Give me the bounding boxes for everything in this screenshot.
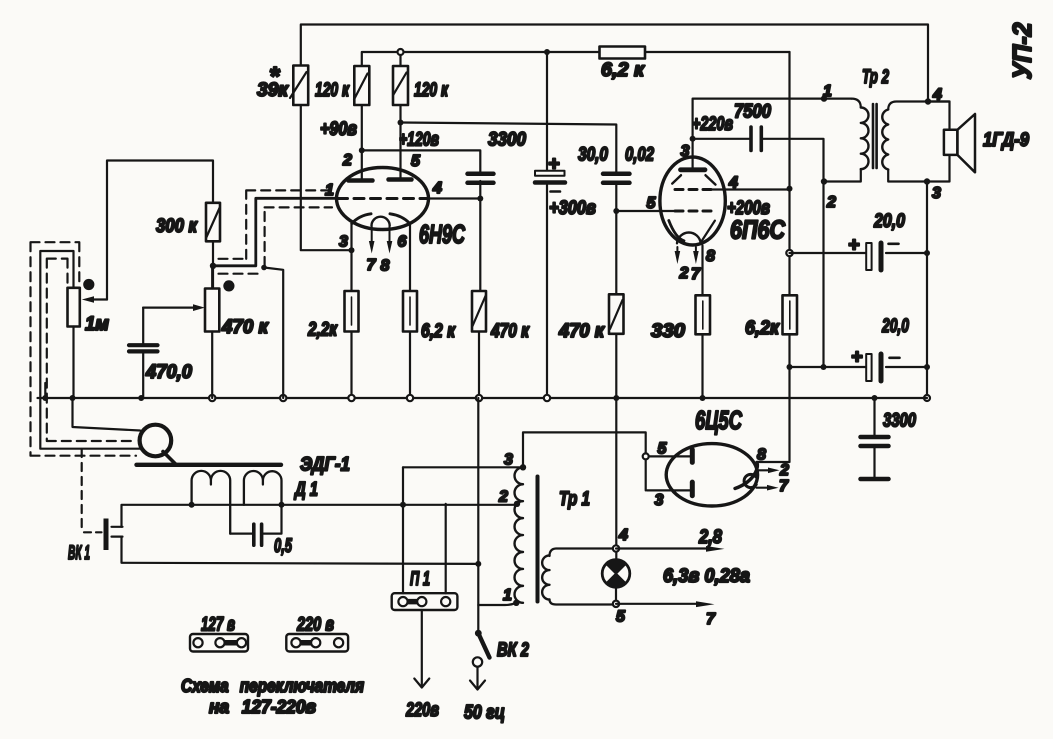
svg-text:П 1: П 1 xyxy=(410,568,430,590)
resistor 470k (slashed, grid leak) xyxy=(472,291,530,342)
svg-text:220в: 220в xyxy=(405,699,439,721)
wire: Tr1 terminal 3 to P1 left xyxy=(403,466,523,468)
capacitor 470,0 xyxy=(129,308,192,398)
svg-text:+220в: +220в xyxy=(692,113,733,135)
transformer Tr1 power xyxy=(498,452,616,607)
resistor 330 xyxy=(651,295,710,342)
svg-text:2: 2 xyxy=(498,489,508,506)
svg-text:5: 5 xyxy=(411,153,421,170)
svg-text:20,0: 20,0 xyxy=(881,315,909,337)
wire: mains wire VK1 to Tr1 terminal 2 xyxy=(122,504,518,527)
node: ring filament 5 xyxy=(613,601,619,607)
capacitor 3300 (output) xyxy=(861,398,917,479)
svg-text:3300: 3300 xyxy=(883,410,916,432)
svg-text:2: 2 xyxy=(679,265,689,282)
svg-text:2: 2 xyxy=(826,194,836,211)
node: dots on right vertical x=927 xyxy=(924,250,930,256)
wire: VK1 to VK2 mains wire xyxy=(122,537,479,564)
svg-text:30,0: 30,0 xyxy=(578,144,608,166)
svg-text:6Н9С: 6Н9С xyxy=(419,219,466,249)
svg-text:+300в: +300в xyxy=(549,197,596,219)
node: ring filament 4 xyxy=(613,545,619,551)
svg-text:470 к: 470 к xyxy=(490,320,530,342)
wire: pin6 column / 6,2k xyxy=(409,224,411,398)
node: Tr2 terminal 3 dot xyxy=(924,178,930,184)
svg-text:4: 4 xyxy=(728,175,738,192)
resistor 2,2k xyxy=(307,291,358,341)
svg-text:2,8: 2,8 xyxy=(698,526,722,548)
svg-text:5: 5 xyxy=(616,609,626,626)
svg-text:на 127-220в: на 127-220в xyxy=(209,697,316,717)
wire: right vertical +300 raw / screen chain xyxy=(757,52,790,462)
wire: 220v mains arrow xyxy=(405,610,439,721)
shield chassis blob left xyxy=(83,279,94,290)
svg-text:4: 4 xyxy=(432,180,442,197)
wire: 120k#2 top stub xyxy=(399,52,401,66)
switch VK2 mains xyxy=(464,398,529,724)
svg-text:470 к: 470 к xyxy=(558,320,605,342)
motor EDG-1 D1 xyxy=(137,454,351,534)
svg-text:0,5: 0,5 xyxy=(274,535,293,557)
svg-text:6: 6 xyxy=(398,234,407,251)
node: pin2 plate node xyxy=(359,147,365,153)
jumper block 220v xyxy=(286,614,348,652)
wire: pin2 node to 3300 cap xyxy=(362,150,481,172)
node: ring 20,0 no.1 tap xyxy=(786,250,792,256)
capacitor 0,02 coupling xyxy=(603,144,654,183)
wire: ground to pickup xyxy=(73,398,141,431)
svg-text:3300: 3300 xyxy=(488,129,526,151)
jumper block 127v xyxy=(190,614,248,652)
svg-text:120 к: 120 к xyxy=(414,79,449,101)
shield chassis blob right xyxy=(223,280,234,291)
wire: filament lead 7 arrow xyxy=(616,601,716,628)
shield dashed box around 1m input xyxy=(31,242,137,456)
wire: 470k (slashed) bottom and VK2 line xyxy=(478,332,480,399)
wire: 470k grid resistor bottom through bus to lamp xyxy=(615,334,617,560)
resistor 39k* (adjustable) xyxy=(257,61,308,105)
wire: 39k bottom to pin 3 node xyxy=(301,105,352,250)
node: dot P1 riser crossing motor wire xyxy=(400,502,406,508)
svg-text:Д 1: Д 1 xyxy=(293,479,318,501)
svg-text:Схема переключателя: Схема переключателя xyxy=(181,676,364,696)
svg-text:+: + xyxy=(851,346,862,368)
svg-text:5: 5 xyxy=(647,195,657,212)
svg-text:6Ц5С: 6Ц5С xyxy=(695,405,743,435)
capacitor 0,5 motor xyxy=(230,505,293,557)
resistor 6,2k horizontal (B+ dropper) xyxy=(600,47,646,82)
svg-text:4: 4 xyxy=(932,87,942,104)
tube 6P6S output pentode xyxy=(647,143,787,283)
wire: 1m top to shielded line down to pickup xyxy=(40,251,140,449)
svg-text:7500: 7500 xyxy=(734,101,771,123)
tube 6N9S double triode xyxy=(325,152,466,275)
wire: grid node to 6P6S pin 5 xyxy=(616,210,676,212)
node: shield drain dot xyxy=(261,265,267,271)
node: ground bus junction dots xyxy=(42,395,48,401)
svg-text:+: + xyxy=(848,234,859,256)
svg-text:5: 5 xyxy=(658,441,668,458)
node: grid junction 6P6S xyxy=(613,208,619,214)
svg-text:ЭДГ-1: ЭДГ-1 xyxy=(300,454,350,476)
resistor 6,2k (cathode right) xyxy=(403,291,456,342)
svg-text:+90в: +90в xyxy=(320,118,357,140)
svg-text:6,2к: 6,2к xyxy=(745,317,780,339)
pickup head xyxy=(140,425,177,465)
svg-text:3: 3 xyxy=(339,234,348,251)
wire: 300k top link from 1m wiper xyxy=(107,161,213,300)
svg-text:ВК 2: ВК 2 xyxy=(497,639,529,661)
lamp indicator xyxy=(602,560,630,588)
wire: +120v node to 0,02 cap xyxy=(401,123,617,173)
svg-text:ВК 1: ВК 1 xyxy=(68,542,90,564)
shield dashes around grid-1 wire xyxy=(219,190,333,273)
wire: P1 left contact riser xyxy=(402,467,404,593)
node: screen node on right vertical xyxy=(787,186,793,192)
wire: speaker top connection xyxy=(928,102,950,131)
wire: filament lead 2,8 arrow xyxy=(616,526,725,552)
wire: ground bus xyxy=(38,397,928,399)
svg-text:3: 3 xyxy=(932,185,941,202)
switch P1 voltage selector xyxy=(392,568,458,610)
svg-text:127 в: 127 в xyxy=(201,614,235,636)
svg-text:4: 4 xyxy=(618,527,628,544)
capacitor 3300 (plate bypass) xyxy=(468,129,527,183)
node: dot terminal2 line to 20,0 wire xyxy=(821,364,827,370)
svg-text:1ГД-9: 1ГД-9 xyxy=(983,129,1029,151)
svg-text:220 в: 220 в xyxy=(296,614,334,636)
svg-text:8: 8 xyxy=(706,248,715,265)
wire: 7500 cap to Tr2 terminal 2, down to 20,0 xyxy=(763,139,824,366)
wire: P1 right contact riser xyxy=(445,504,447,593)
svg-text:6,2 к: 6,2 к xyxy=(421,320,456,342)
node: Tr2 terminal 4 dot xyxy=(925,98,931,104)
potentiometer 1m volume xyxy=(68,288,110,398)
svg-text:7: 7 xyxy=(706,611,716,628)
wire: pin3 column / 2,2k xyxy=(350,224,352,398)
node: ring bus right corner xyxy=(924,395,930,401)
wire: 330 resistor column xyxy=(701,246,703,399)
transformer Tr2 output xyxy=(821,66,950,211)
svg-text:1: 1 xyxy=(823,83,832,100)
wire: 6P6S plate riser to Tr2 terminal 1 xyxy=(693,99,852,168)
resistor 6,2k (screen filter) xyxy=(745,295,797,339)
svg-text:470,0: 470,0 xyxy=(145,361,192,383)
svg-text:3: 3 xyxy=(655,492,664,509)
svg-text:8: 8 xyxy=(381,258,390,275)
svg-text:120 к: 120 к xyxy=(315,79,350,101)
resistor 300k xyxy=(156,203,220,242)
capacitor 20,0 no.2 xyxy=(851,315,909,381)
svg-text:2: 2 xyxy=(779,462,789,479)
svg-text:6,2 к: 6,2 к xyxy=(601,59,645,81)
svg-text:Тр 1: Тр 1 xyxy=(559,488,590,510)
resistor 120k #1 xyxy=(315,66,369,105)
svg-text:7: 7 xyxy=(779,478,789,495)
svg-text:1: 1 xyxy=(503,587,512,604)
node: grid-1 junction dot xyxy=(210,263,216,269)
svg-text:20,0: 20,0 xyxy=(873,210,905,232)
svg-text:УП-2: УП-2 xyxy=(1007,22,1037,80)
wire: tube pin 4 to column xyxy=(429,197,481,199)
capacitor 30,0 electrolytic xyxy=(535,144,608,220)
wire: 120k#2 bottom to tube pin 5 xyxy=(399,105,401,178)
node: ring at 120k#2 top xyxy=(398,49,404,55)
svg-text:50 гц: 50 гц xyxy=(464,702,505,724)
wire: Tr1 terminal 1 to VK2 junction xyxy=(478,603,516,605)
svg-text:6,3в 0,28а: 6,3в 0,28а xyxy=(663,565,750,587)
wire: lamp bottom xyxy=(615,587,617,604)
caption switching scheme xyxy=(181,676,364,717)
svg-text:Тр 2: Тр 2 xyxy=(862,66,889,88)
wire: 30,0 capacitor column xyxy=(546,52,548,398)
svg-text:3: 3 xyxy=(681,143,690,160)
svg-text:470 к: 470 к xyxy=(221,316,269,338)
svg-text:1м: 1м xyxy=(85,313,110,335)
wire: Tr1 terminal 3 to rectifier plates xyxy=(523,432,646,490)
svg-text:+200в: +200в xyxy=(727,197,770,219)
potentiometer 470k xyxy=(143,266,269,398)
tube 6Ts5S rectifier xyxy=(647,405,789,509)
node: junction bus / 30,0 column xyxy=(544,49,550,55)
switch VK1 motor button xyxy=(68,449,123,564)
wire: 120k#1 bottom to tube pin 2 xyxy=(361,105,363,179)
wire: shield tap to ground bus xyxy=(44,383,46,398)
svg-text:3: 3 xyxy=(504,452,513,469)
svg-text:+: + xyxy=(548,153,559,175)
node: ground bus rings xyxy=(209,395,215,401)
node: plate node 6P6S xyxy=(690,136,696,142)
svg-text:+120в: +120в xyxy=(399,129,439,151)
svg-text:2: 2 xyxy=(342,152,352,169)
node: ring at rectifier plate tie xyxy=(643,453,649,459)
wire: 3300 bottom / pin4 / 470k column xyxy=(479,181,481,291)
node: pin3 node xyxy=(349,247,355,253)
svg-text:7: 7 xyxy=(367,257,377,274)
svg-text:300 к: 300 к xyxy=(156,215,198,237)
wire: plate node to 7500 cap xyxy=(693,138,750,140)
speaker 1GD-9 xyxy=(944,114,1029,172)
resistor 470k (grid of 6P6S) xyxy=(558,294,623,342)
node: pin4 junction xyxy=(477,196,483,202)
wire: shield drain to ground xyxy=(264,268,283,399)
svg-text:7: 7 xyxy=(691,266,701,283)
wire: speaker return vertical xyxy=(926,182,928,399)
wire: 20,0 no.1 leads xyxy=(790,252,928,254)
svg-text:6П6С: 6П6С xyxy=(730,215,786,245)
node: +120v node xyxy=(398,120,404,126)
wire: 20,0 no.2 leads xyxy=(790,366,928,368)
wire: +300v bus y=52 xyxy=(362,52,790,66)
wire: 6P6S pin4 screen wire xyxy=(725,188,790,190)
svg-text:0,02: 0,02 xyxy=(625,144,654,166)
node: dot 20,0 no.2 tap xyxy=(787,364,793,370)
wire: shielded grid-1 wire to tube xyxy=(213,198,338,265)
wire: 0,02 bottom to 470k grid resistor xyxy=(615,185,617,294)
wire: speaker bottom connection xyxy=(927,155,950,182)
capacitor 20,0 no.1 xyxy=(848,210,905,270)
wire: top feedback bus from 39k to Tr2 terminal 4 xyxy=(301,25,928,102)
capacitor 7500 xyxy=(734,101,771,151)
wire: 300k bottom to grid junction xyxy=(212,241,214,288)
svg-text:8: 8 xyxy=(757,447,766,464)
svg-text:2,2к: 2,2к xyxy=(307,319,338,341)
resistor 120k #2 xyxy=(393,66,449,105)
svg-text:330: 330 xyxy=(651,320,685,342)
